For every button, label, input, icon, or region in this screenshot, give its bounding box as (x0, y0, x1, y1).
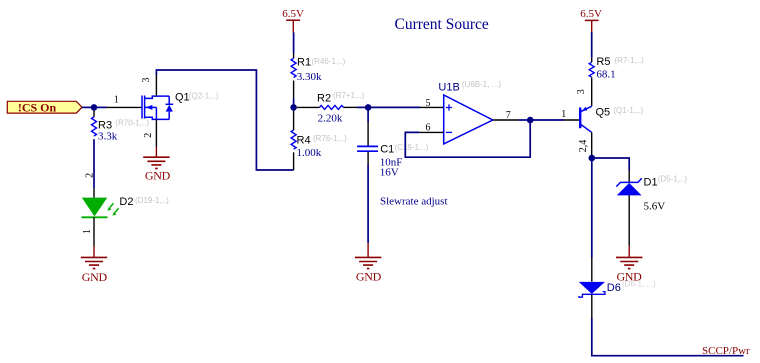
capacitor C1 (357, 123, 429, 179)
svg-text:7: 7 (506, 110, 511, 121)
svg-text:(R46-1,..): (R46-1,..) (312, 57, 346, 66)
svg-text:1: 1 (82, 229, 93, 234)
pin 6 of U1B (419, 131, 443, 133)
node A junction dot (91, 104, 98, 111)
svg-text:2.20k: 2.20k (318, 112, 343, 124)
pin 1 of Q5 (base) (564, 119, 580, 121)
svg-text:(R76-1,..): (R76-1,..) (313, 134, 347, 143)
svg-text:Q1: Q1 (175, 91, 190, 103)
pin 3 of Q5 (emitter pin) (591, 78, 593, 107)
pin 3 of Q1 (drain) (155, 75, 157, 97)
ground under C1 (355, 243, 382, 284)
power 6.5V (left) (282, 8, 304, 32)
svg-text:1: 1 (561, 109, 566, 120)
svg-text:1.00k: 1.00k (297, 147, 322, 159)
wire Q5 collector to node E (591, 155, 593, 159)
wire 6.5V to R5 (591, 32, 593, 58)
diode D6 (schottky) (579, 258, 656, 298)
svg-text:C1: C1 (380, 143, 394, 155)
node D junction dot (527, 117, 534, 124)
svg-text:R5: R5 (596, 56, 610, 68)
pin 1 of D2 (93, 217, 95, 246)
ground under D1 (616, 246, 642, 284)
wire R3 to LED D2 (93, 139, 95, 188)
pin 7 of U1B (493, 119, 519, 121)
ground under Q1 (143, 147, 170, 183)
pin 2 of D2 (93, 188, 95, 198)
svg-text:R2: R2 (317, 92, 331, 104)
wire node C down to C1 (367, 107, 369, 122)
svg-text:68.1: 68.1 (596, 68, 615, 80)
svg-text:R1: R1 (297, 56, 311, 68)
svg-text:Current Source: Current Source (395, 16, 489, 33)
pin 1 of Q1 (gate pin) (107, 106, 142, 108)
svg-text:(R7-1,..): (R7-1,..) (615, 56, 645, 65)
svg-text:Slewrate adjust: Slewrate adjust (380, 196, 448, 208)
svg-text:R4: R4 (297, 134, 311, 146)
node E junction dot (589, 155, 596, 162)
svg-text:3.30k: 3.30k (297, 71, 322, 83)
svg-text:GND: GND (82, 270, 108, 284)
transistor Q1 (MOSFET) (142, 91, 219, 119)
svg-text:6: 6 (426, 122, 431, 133)
wire node E down to D6 (591, 158, 593, 258)
transistor Q5 (PNP) (580, 106, 643, 132)
svg-text:3.3k: 3.3k (98, 130, 118, 142)
svg-text:(Q2-1,..): (Q2-1,..) (189, 91, 219, 100)
svg-text:5: 5 (426, 98, 431, 109)
svg-text:2: 2 (143, 133, 154, 138)
wire 6.5V to R1 (293, 33, 295, 54)
wire node C to op-amp pin 5 (368, 106, 420, 108)
LED D2 (82, 196, 170, 217)
svg-text:3: 3 (576, 89, 587, 94)
svg-text:GND: GND (356, 270, 382, 284)
svg-text:6.5V: 6.5V (580, 8, 602, 20)
wire R2 to node C (357, 106, 368, 108)
svg-text:6.5V: 6.5V (282, 8, 304, 20)
node B junction dot (290, 104, 297, 111)
svg-text:Q5: Q5 (596, 107, 611, 119)
svg-text:(D19-1,..): (D19-1,..) (135, 196, 169, 205)
pin 2 of Q1 (source) (155, 119, 157, 147)
resistor R5 (589, 56, 644, 80)
svg-text:U1B: U1B (438, 82, 459, 94)
wire R1 to node B (293, 98, 295, 107)
svg-text:1: 1 (114, 94, 119, 105)
svg-text:(R7+1,..): (R7+1,..) (333, 91, 365, 100)
resistor R2 (297, 91, 365, 124)
ground under D2 (81, 246, 108, 284)
wire node E to D1 (592, 158, 629, 171)
svg-text:D6: D6 (607, 282, 621, 294)
wire Q1 drain loop to R4 bottom (156, 70, 293, 170)
svg-text:!CS On: !CS On (18, 100, 57, 114)
wire op-amp output to node D (519, 119, 531, 121)
node C junction dot (365, 104, 372, 111)
svg-text:(D5-1,..): (D5-1,..) (658, 175, 688, 184)
pin 5 of U1B (420, 106, 444, 108)
diode D1 (zener) (616, 171, 687, 246)
resistor R4 (291, 111, 347, 170)
svg-text:16V: 16V (380, 167, 399, 179)
svg-text:D2: D2 (119, 196, 133, 208)
svg-text:3: 3 (141, 78, 152, 83)
svg-text:(C19-1,..): (C19-1,..) (395, 143, 429, 152)
svg-text:2,4: 2,4 (578, 140, 589, 153)
wire flag to node A (82, 106, 94, 108)
svg-text:2: 2 (85, 173, 96, 178)
svg-text:(U6B-1, ...): (U6B-1, ...) (462, 80, 501, 89)
svg-text:GND: GND (145, 168, 171, 182)
op-amp U1B (438, 80, 501, 144)
wire feedback loop node D to pin 6 (405, 120, 530, 157)
svg-text:(Q1-1,..): (Q1-1,..) (613, 106, 643, 115)
resistor R3 (92, 111, 150, 143)
wire C1 to ground (367, 165, 369, 244)
power 6.5V (right) (580, 8, 602, 32)
wire node A to Q1 gate (94, 106, 107, 108)
wire node D to Q5 base (530, 119, 564, 121)
pin below D6 (591, 295, 593, 319)
pin 2,4 of Q5 (collector) (591, 132, 593, 154)
svg-text:SCCP/Pwr: SCCP/Pwr (702, 345, 750, 357)
resistor R1 (291, 53, 346, 98)
wire D6 to SCCP/Pwr (592, 318, 744, 356)
port !CS On (7, 100, 82, 114)
svg-text:5.6V: 5.6V (644, 201, 666, 213)
svg-text:(R70-1,..): (R70-1,..) (115, 119, 149, 128)
svg-text:D1: D1 (644, 176, 658, 188)
svg-text:(D6-1, ...): (D6-1, ...) (622, 280, 656, 289)
